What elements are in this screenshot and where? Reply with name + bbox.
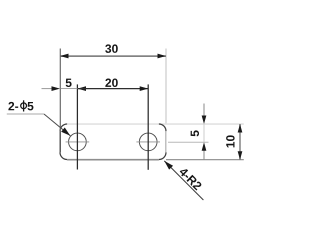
hole 2 vertical centerline extension xyxy=(147,84,149,169)
leader 2-phi5 arrow xyxy=(61,127,72,137)
dimension 5 value text xyxy=(66,79,72,87)
dimension 10 top arrow xyxy=(238,124,243,133)
dimension 5 right lower tail line xyxy=(203,149,205,160)
plate corner arc bottom-right R2 xyxy=(159,152,166,159)
hole 1 horizontal centerline xyxy=(66,141,90,143)
dimension 20 value text xyxy=(105,79,117,88)
label 2-phi5 text part 2- xyxy=(8,102,18,110)
dimension 10 bottom arrow xyxy=(238,151,243,160)
label phi symbol vertical stroke xyxy=(23,100,25,111)
plate corner arc top-left R2 xyxy=(60,124,67,131)
extension line right for dim 30 xyxy=(165,49,167,124)
dimension 20 right arrow xyxy=(140,86,149,91)
dimension 20 line xyxy=(78,88,149,90)
plate corner arc bottom-left R2 xyxy=(60,152,67,159)
dimension 5 right upper tail line xyxy=(203,104,205,118)
dimension 10 value text xyxy=(226,135,235,147)
dimension 5 / 20 shared arrow xyxy=(78,86,87,91)
extension line left for dim 30 xyxy=(59,49,61,132)
hole centerline extension to right 5 dimension xyxy=(168,141,209,143)
dimension 5 right middle thin line xyxy=(203,124,205,142)
leader 4-R2 arrow xyxy=(162,159,173,170)
dimension 5 right bottom outside arrow xyxy=(202,142,207,151)
dimension 5 right top outside arrow xyxy=(202,116,207,125)
dimension 30 left arrow xyxy=(60,54,69,59)
dimension 30 value text xyxy=(105,44,118,53)
dimension 10 line xyxy=(239,124,241,160)
plate bottom edge extension line xyxy=(166,159,244,161)
hole 1 circle phi5 xyxy=(69,133,87,151)
dimension 30 line xyxy=(60,55,166,57)
dimension 30 right arrow xyxy=(158,54,167,59)
plate bottom edge xyxy=(67,159,159,161)
leader 2-phi5 diagonal line xyxy=(44,114,70,136)
label 4-R2 text xyxy=(179,167,203,191)
dimension 5 thin middle line xyxy=(61,88,78,90)
plate top edge with extension line to right dimensions xyxy=(67,123,244,125)
label phi symbol circle xyxy=(21,103,27,109)
leader 4-R2 line xyxy=(164,161,203,200)
plate right edge xyxy=(165,131,167,152)
leader 2-phi5 horizontal line xyxy=(7,113,44,115)
dimension 5 left outside arrow xyxy=(52,86,61,91)
dimension 5 tail line xyxy=(42,88,54,90)
hole 1 vertical centerline extension xyxy=(76,84,78,169)
hole 2 horizontal centerline xyxy=(136,141,160,143)
label 2-phi5 text part 5 xyxy=(27,102,33,110)
plate corner arc top-right R2 xyxy=(159,124,166,131)
hole 2 circle phi5 xyxy=(139,133,157,151)
dimension 5 right value text xyxy=(191,130,199,136)
plate left edge xyxy=(59,131,61,152)
